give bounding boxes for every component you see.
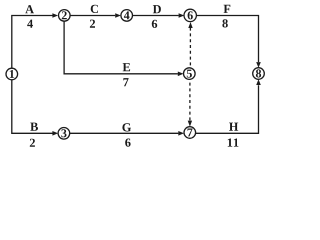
- node 6: [184, 9, 196, 21]
- duration 2: [30, 139, 35, 147]
- arrowhead into node7 (G): [178, 131, 184, 136]
- arrowhead into node2: [52, 13, 58, 18]
- node 4 label: [124, 11, 130, 19]
- wire B: node1 down then right to node3: [12, 80, 53, 133]
- node 3: [58, 128, 70, 140]
- activity A label: [25, 5, 34, 13]
- arrowhead into node6 bottom (dummy from 5): [188, 22, 192, 28]
- node 2 label: [62, 11, 67, 19]
- arrowhead into node8 bottom (H): [256, 79, 261, 85]
- activity H label: [229, 123, 238, 131]
- wire A: node1 up then right to node2: [12, 16, 53, 69]
- node 7: [184, 127, 196, 139]
- duration 6: [125, 139, 130, 147]
- arrowhead into node8 top (F): [256, 62, 261, 68]
- wire G: node3 to node7: [70, 132, 179, 134]
- duration 4: [27, 20, 33, 28]
- node 2: [59, 10, 71, 22]
- arrowhead into node7 top (dummy from 5): [188, 121, 192, 127]
- wire H: node7 right then up to node8: [196, 85, 259, 133]
- node 3 label: [61, 129, 66, 137]
- wire E: node2 down then right to node5: [64, 21, 178, 74]
- node 8: [253, 68, 265, 80]
- activity G label: [122, 123, 131, 131]
- node 8 label: [256, 69, 261, 77]
- wire C: node2 to node4: [70, 15, 115, 17]
- wire F: node6 right then down to node8: [196, 16, 258, 63]
- node 7 label: [188, 129, 193, 137]
- duration 2: [90, 20, 95, 28]
- node 1: [6, 68, 18, 80]
- activity C label: [91, 5, 98, 13]
- node 6 label: [188, 11, 193, 19]
- arrowhead into node5: [178, 72, 184, 77]
- dummy wire 5 to 6 (dashed): [189, 28, 191, 68]
- arrowhead into node4: [115, 13, 121, 18]
- duration 8: [222, 19, 227, 27]
- duration 7: [123, 78, 128, 86]
- node 1 label: [10, 70, 14, 78]
- arrowhead into node6: [179, 13, 185, 18]
- duration 11: [228, 139, 239, 147]
- activity F label: [224, 5, 231, 13]
- arrowhead into node3: [52, 131, 58, 136]
- wire D: node4 to node6: [133, 15, 179, 17]
- node 5 label: [187, 70, 192, 78]
- activity D label: [153, 5, 161, 13]
- duration 6: [152, 20, 157, 28]
- activity E label: [123, 63, 130, 71]
- node 5: [184, 68, 196, 80]
- node 4: [121, 10, 133, 22]
- dummy wire 5 to 7 (dashed): [189, 80, 191, 121]
- activity B label: [30, 123, 38, 131]
